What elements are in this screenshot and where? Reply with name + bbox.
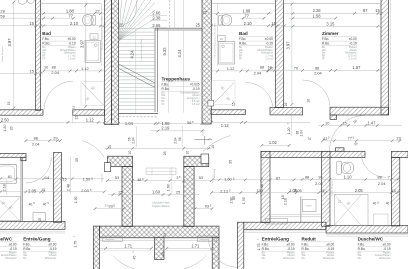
wall right unit bottom band B [326,226,408,234]
svg-text:2.19: 2.19 [161,126,170,131]
wall bottom corner right vertical [212,237,219,269]
svg-text:3.97: 3.97 [285,41,290,50]
dim line lift row2 [108,194,199,196]
wall mid band right segment C under Zimmer [330,107,389,115]
svg-text:22: 22 [93,35,97,39]
svg-text:93: 93 [108,204,112,209]
dim line left rooms row2 [0,191,104,193]
wall right unit vertical (Dusche/WC left) [322,151,331,226]
dim line right unit row1 [212,179,297,181]
svg-text:Dusche/WC: Dusche/WC [0,237,13,242]
facade lines right rooms [244,230,326,232]
svg-text:1.50: 1.50 [83,177,91,182]
svg-text:10: 10 [211,145,215,149]
dim vertical line tub [6,180,8,196]
shower corner square Bad1 [81,81,104,105]
svg-text:1.60: 1.60 [224,177,232,182]
wall staircase left inner leaf (hatched) [112,0,119,125]
stair dashed line above [119,116,157,118]
svg-text:FF: FF [322,58,326,61]
svg-text:25: 25 [176,190,180,195]
svg-text:10: 10 [269,67,273,71]
svg-text:88: 88 [305,174,309,179]
svg-text:53: 53 [115,175,119,180]
svg-text:Steigzone: Steigzone [100,173,103,183]
dim line top row3 Zimmer [285,25,382,27]
svg-text:10: 10 [108,145,112,149]
svg-text:2.04: 2.04 [254,70,262,75]
svg-text:2.10: 2.10 [244,21,253,26]
svg-text:15: 15 [231,102,235,106]
svg-text:±0.00: ±0.00 [326,242,334,246]
svg-text:1.47: 1.47 [368,120,377,125]
door arc Bad1 [44,81,73,110]
svg-text:10: 10 [44,65,48,69]
svg-text:88: 88 [34,135,38,140]
svg-text:1.12: 1.12 [227,66,235,71]
svg-text:7: 7 [388,174,390,179]
svg-text:Entrée/Gang: Entrée/Gang [262,237,290,242]
svg-text:2.50: 2.50 [1,117,10,122]
svg-text:2.18: 2.18 [3,184,7,191]
svg-text:4.24: 4.24 [177,49,182,58]
svg-text:2.05: 2.05 [355,188,364,193]
svg-text:Bad: Bad [239,31,248,36]
shower Dusche/WC right [335,194,369,225]
wall right unit bottom band A [244,222,326,229]
wall tab row3 left end [21,157,26,160]
stair cut line [119,64,155,83]
door stop notch on row3 right wall [336,148,345,152]
duct box on right cap [201,154,209,164]
svg-text:Steigzone: Steigzone [271,220,281,223]
duct box 22 Bad2 [218,35,226,41]
svg-text:15: 15 [62,176,66,181]
dim vertical line Bad2 right [291,3,293,105]
toilet Bad2 [219,15,223,25]
door arc Dusche/WC right [361,152,386,177]
svg-text:74: 74 [307,137,311,141]
wall mid band left segment B [73,110,105,115]
svg-text:93: 93 [205,204,209,209]
svg-text:5.32: 5.32 [162,47,167,56]
dim line 93.5 right [195,208,212,210]
stair walking line [124,1,136,25]
svg-text:1.12: 1.12 [81,66,89,71]
svg-text:1.58: 1.58 [313,13,322,18]
svg-text:2.38: 2.38 [152,15,161,20]
door arc Zimmer [303,80,331,107]
dim vertical line Zimmer door [290,115,292,136]
svg-text:35: 35 [75,158,79,162]
washing machine box WM/T [303,199,317,211]
svg-text:Weissputz: Weissputz [283,257,295,260]
svg-text:1.71: 1.71 [124,244,133,249]
svg-text:2.13: 2.13 [220,189,228,194]
duct box small on stair wall [208,100,214,106]
lift shaft left stem (cross-hatched) [122,167,133,227]
svg-text:25: 25 [119,23,124,28]
svg-text:87: 87 [363,8,368,13]
dim line right unit row2 [212,192,297,194]
svg-text:45: 45 [161,252,165,256]
wall right unit vertical far right [391,158,399,227]
svg-text:1.71: 1.71 [191,244,200,249]
svg-text:16: 16 [284,103,288,107]
svg-text:Weissputz: Weissputz [45,257,57,260]
dim vertical 4.24 void [182,31,184,113]
svg-text:Weissputz: Weissputz [379,257,391,260]
dim vertical line left rooms [70,157,72,195]
dim line left wall 15 row [0,72,44,74]
niche box left unit [33,213,45,221]
svg-text:40: 40 [386,202,390,206]
dim line top row2 Zimmer [289,17,336,19]
svg-text:29: 29 [53,135,57,140]
door arc bottom left entrance [113,256,135,269]
svg-text:77: 77 [244,13,249,18]
dim line top row2 left [0,17,74,19]
svg-text:10: 10 [185,151,189,155]
void vertical dim line b [182,0,184,28]
svg-text:1.12: 1.12 [221,123,230,128]
washbasin top left [18,0,27,4]
svg-text:Steigzone: Steigzone [200,238,210,241]
svg-text:±0.00: ±0.00 [287,242,295,246]
dim line 88-29 left [26,140,61,142]
svg-text:FF: FF [162,103,166,106]
dim vertical 5.32 void [167,31,169,113]
svg-text:1.75: 1.75 [257,244,261,251]
svg-text:1.57: 1.57 [352,65,361,70]
facade lines center right [164,238,219,240]
svg-text:2.05: 2.05 [28,189,37,194]
wall Bad2 right (hatched) [275,0,283,108]
svg-text:OK exakte Treppenwand 1.10 m a: OK exakte Treppenwand 1.10 m ab F.Bo. [214,22,217,57]
svg-text:±0.00: ±0.00 [203,130,205,136]
svg-text:±0.00: ±0.00 [383,242,391,246]
dim line under Bad1 [44,70,105,72]
dim line far right row2 [322,140,402,142]
svg-text:53: 53 [199,175,203,180]
level reference mark [194,138,212,140]
svg-text:15: 15 [271,21,276,26]
wall row3 far right segment [391,151,408,157]
svg-text:35: 35 [228,160,232,164]
dim line fr row2 [293,192,400,194]
stair treads lower flight [119,27,155,29]
partition Dusche/Entree left unit [20,157,22,221]
wall exterior right (hatched) [381,0,389,115]
door arc Bad2 [246,82,274,109]
wall mid band left segment A [0,110,43,115]
svg-text:1.20: 1.20 [287,128,291,135]
svg-text:F.Bo.: F.Bo. [239,37,246,41]
svg-text:2.10: 2.10 [70,21,79,26]
svg-text:1.04: 1.04 [125,121,134,126]
dim vertical 4.24 left flight [135,29,137,114]
steigzone box bottom left [103,236,123,241]
svg-text:40: 40 [43,202,47,206]
wall staircase right (cross-hatched) [202,0,211,124]
dim vertical line band B end [72,115,74,123]
dim line top row3 Bad2 [211,25,284,27]
shower tray Bad2 [218,42,234,64]
svg-text:FF: FF [42,58,46,61]
finish line Bad2 along stair wall [217,3,219,66]
svg-text:F.Bo.: F.Bo. [42,37,49,41]
svg-text:Sanitär Steigzone: Sanitär Steigzone [330,179,333,196]
shower tray Bad1 [85,41,100,63]
svg-text:92: 92 [105,204,109,208]
svg-text:56: 56 [187,120,191,125]
svg-text:±0.00: ±0.00 [9,242,17,246]
svg-text:±0.00: ±0.00 [349,37,357,41]
svg-text:F.Bo.: F.Bo. [23,242,30,246]
dim line 93.5 left [95,208,124,210]
finish line right of exterior wall [389,0,391,115]
dim line far right row1 [318,124,402,126]
svg-text:22: 22 [338,200,342,204]
door arc left unit lower [26,157,52,183]
svg-text:2.04: 2.04 [378,181,386,186]
svg-text:De.: De. [262,257,266,260]
svg-text:Weissputz: Weissputz [323,257,335,260]
svg-text:1.0 m2: 1.0 m2 [68,58,76,61]
svg-text:OK exakte Treppenwand 1.10 m a: OK exakte Treppenwand 1.10 m ab F.Bo. [101,15,104,50]
dim line row3 across [104,147,211,149]
dim vertical line landing right [181,126,183,147]
dim line mid right [203,121,310,123]
svg-text:61: 61 [8,174,12,179]
lift shaft left cap (cross-hatched) [108,156,133,166]
wall row3 left segment [0,153,26,157]
top edge line Bad2 [211,2,275,4]
door arc right apartment entry [203,135,231,151]
wall left unit inner vertical [54,153,62,223]
svg-text:22: 22 [203,10,207,15]
top edge line Zimmer [284,2,382,4]
svg-text:±0.00: ±0.00 [265,37,273,41]
svg-text:20: 20 [9,126,13,130]
svg-text:45: 45 [132,256,136,260]
finish line Bad1 along stair wall [101,3,103,66]
svg-text:3.97: 3.97 [80,39,85,48]
svg-text:2.48: 2.48 [67,184,71,191]
svg-text:Entrée/Gang: Entrée/Gang [23,237,51,242]
svg-text:88: 88 [377,174,381,179]
dim line fr row1 [296,178,400,180]
svg-text:1.90: 1.90 [230,197,234,204]
svg-text:1.90: 1.90 [74,196,78,203]
svg-text:De.: De. [302,257,306,260]
svg-text:2.66: 2.66 [152,23,161,28]
wall bottom corner left vertical [93,226,99,269]
door arc bottom right entrance [209,238,238,267]
svg-text:1.75: 1.75 [73,241,77,248]
svg-text:Angabe Liftbauer: Angabe Liftbauer [152,205,170,208]
svg-text:FF: FF [239,58,243,61]
partition stair void wall [154,28,156,112]
lift shaft right stem (cross-hatched) [184,167,194,227]
wall bottom band under lift (cross-hatched) [100,226,220,237]
partition Reduit right unit [300,197,302,223]
toilet Bad1 [92,15,96,25]
wall staircase left outer leaf (hatched) [105,0,112,125]
dim line left rooms row1 [0,178,104,180]
stair winder fan treads [119,0,122,41]
svg-text:25: 25 [118,190,122,195]
wall right unit inner vertical (Entree) [261,151,270,222]
svg-text:88: 88 [260,65,264,69]
wall mid band right segment A [211,110,246,115]
dim vertical 1.60 lift [171,167,173,193]
wall tab below Zimmer door [330,115,337,119]
dim line top row1 Zimmer [285,12,382,14]
lift car symbol [146,168,176,175]
svg-text:2.04: 2.04 [132,137,136,143]
svg-text:Dusche/WC: Dusche/WC [358,237,384,242]
svg-text:15: 15 [41,188,45,192]
svg-text:25: 25 [196,23,201,28]
wall right unit entrance vertical [238,222,244,269]
svg-text:25: 25 [163,151,167,155]
svg-text:2.04: 2.04 [314,71,322,76]
svg-text:15: 15 [391,188,395,193]
svg-text:15: 15 [29,21,34,26]
svg-text:Reduit: Reduit [302,237,317,242]
svg-text:2.04: 2.04 [315,181,323,186]
svg-text:15: 15 [342,120,346,125]
dim line under Bad2 [211,70,272,72]
dim line 1.71 right [166,247,215,249]
wardrobe lines right Entree [271,213,322,215]
svg-text:De.: De. [23,257,27,260]
stair landing edge [119,112,158,114]
svg-text:Treppe siehe spez. Plan: Treppe siehe spez. Plan [141,39,143,61]
svg-text:Türanschlag: Türanschlag [214,169,216,180]
svg-text:15: 15 [30,68,34,73]
svg-text:29: 29 [396,135,400,140]
svg-text:2.18: 2.18 [283,198,287,205]
svg-text:F.Bo.: F.Bo. [262,242,269,246]
door arc left apartment entry [82,141,104,157]
svg-text:2.04: 2.04 [51,70,59,75]
facade lines left rooms [0,230,65,232]
svg-text:22: 22 [95,9,99,14]
svg-text:10: 10 [128,151,132,155]
void vertical dim line a [173,0,175,28]
svg-text:Bad: Bad [42,31,51,36]
dim line stair bottom [104,122,211,124]
wall mid band right segment B [270,108,303,115]
svg-text:40: 40 [29,202,33,206]
dim line mid left [0,121,104,123]
svg-text:2.48: 2.48 [260,184,264,191]
svg-text:4.6 m2: 4.6 m2 [192,103,200,106]
svg-text:2.04: 2.04 [32,141,40,146]
svg-text:1.5 m2: 1.5 m2 [265,58,273,61]
svg-text:77: 77 [68,13,73,18]
svg-text:De.: De. [358,257,362,260]
svg-text:42: 42 [323,136,327,141]
dim vertical line landing left [136,126,138,147]
svg-text:2.05: 2.05 [294,188,302,193]
party wall below center (cross-hatched) [155,237,165,259]
svg-text:40: 40 [373,202,377,206]
dim line top row1 Bad2 [211,12,272,14]
svg-text:2.03: 2.03 [81,188,89,193]
svg-text:58: 58 [0,14,4,19]
dim vertical line Bad1 right [85,4,87,107]
door arc bottom center right fragment [184,256,206,269]
door arc Zimmer upper swing [330,116,366,152]
dim line top row1 left [0,12,104,14]
svg-text:56: 56 [178,137,182,141]
svg-text:2.04: 2.04 [300,130,304,136]
svg-text:F.Bo.: F.Bo. [358,242,365,246]
bathtub left edge [0,164,17,183]
svg-text:16: 16 [307,99,311,103]
toilet Dusche/WC right [337,161,342,174]
svg-text:2.5 m2: 2.5 m2 [349,58,357,61]
svg-text:77: 77 [348,135,352,140]
steigzone box right unit [265,218,287,224]
dim line row 1.02 [262,144,290,146]
wall left unit bottom band [0,222,65,230]
svg-text:1.60: 1.60 [167,184,171,191]
svg-text:22: 22 [220,37,224,41]
dim line 1.71 left [100,247,152,249]
svg-text:Zimmer: Zimmer [322,31,339,36]
svg-text:87: 87 [276,175,280,180]
svg-text:3.15: 3.15 [326,22,335,27]
facade lines center left [100,238,155,240]
svg-text:±0.00: ±0.00 [68,37,76,41]
svg-text:1.10: 1.10 [344,174,353,179]
dim line right unit door top [262,69,381,71]
svg-text:Weissputz: Weissputz [5,257,17,260]
wall Bad1 left (hatched) [36,0,41,111]
svg-text:1.02: 1.02 [269,140,278,145]
dashed line top of void [169,0,171,28]
dim vertical line left [13,2,15,109]
svg-text:F.Bo.: F.Bo. [162,82,169,86]
svg-text:1.12: 1.12 [86,117,95,122]
svg-text:32: 32 [74,116,78,120]
svg-text:Steigzone: Steigzone [105,238,115,241]
svg-text:48: 48 [137,178,141,182]
wall row3 right long segment [261,151,365,157]
svg-text:Treppenhaus: Treppenhaus [162,77,191,82]
duct box on left cap [104,163,110,172]
svg-text:F.Bo.: F.Bo. [322,37,329,41]
svg-text:15: 15 [38,218,42,222]
lift shaft right cap (cross-hatched) [184,156,209,166]
svg-text:3.97: 3.97 [7,38,12,47]
dim line top row3 left [0,25,104,27]
svg-text:88: 88 [52,65,56,69]
svg-text:1.20: 1.20 [3,125,7,132]
dim line lift row1 [107,180,211,182]
shower Dusche/WC left [0,197,21,221]
dim line top row2 Bad2 [240,17,264,19]
svg-text:15: 15 [320,188,324,193]
svg-text:23: 23 [163,233,167,237]
svg-text:1.90: 1.90 [242,197,246,204]
steigzone box bottom right [197,236,217,241]
shower corner square Bad2 [212,81,236,105]
